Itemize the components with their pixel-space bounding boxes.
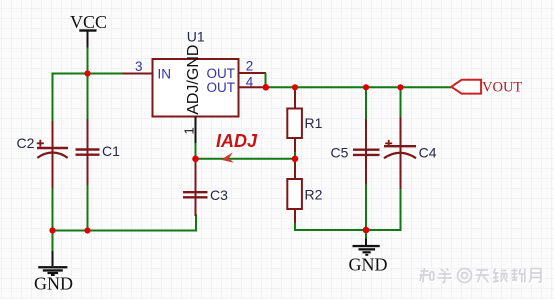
junction node R1/R2 (292, 156, 299, 163)
wire C2 bottom to ground rail (52, 187, 54, 231)
capacitor C3 (183, 160, 208, 216)
svg-text:ADJ/GND: ADJ/GND (185, 45, 202, 115)
wire C1 branch top (87, 74, 89, 121)
svg-text:VOUT: VOUT (482, 80, 522, 96)
svg-text:IN: IN (158, 67, 172, 82)
junction node ADJ/C3 (192, 156, 199, 163)
junction node R1 top (292, 84, 298, 90)
wire top-left horizontal (53, 73, 124, 75)
wire C1 bottom to ground rail (87, 184, 89, 231)
wire pin2 corner down (265, 73, 267, 87)
svg-text:IADJ: IADJ (216, 131, 258, 151)
resistor R1 (287, 87, 302, 159)
svg-text:R2: R2 (305, 187, 323, 203)
junction node gnd rail C1 (84, 227, 90, 233)
annotation arrow IADJ (221, 152, 234, 163)
junction node C5 top (363, 84, 369, 90)
svg-text:C5: C5 (331, 144, 349, 160)
junction node VCC/C1 (84, 70, 90, 76)
resistor R2 (287, 159, 302, 231)
ground GND-left (34, 251, 73, 294)
port VOUT (451, 80, 522, 96)
ground GND-right (349, 229, 388, 275)
svg-text:R1: R1 (305, 115, 323, 131)
junction node gnd rail C2 (49, 227, 55, 233)
svg-text:C2: C2 (17, 135, 35, 151)
power port VCC (70, 12, 107, 48)
wire bottom-left ground rail (53, 214, 197, 231)
junction node gnd rail right (363, 227, 370, 234)
wire left drop to C2 (52, 73, 54, 124)
svg-text:4: 4 (246, 74, 254, 89)
capacitor C5 (353, 87, 380, 232)
junction node C4 top (397, 84, 403, 90)
pin 2 stub (239, 72, 267, 74)
pin 3 stub (123, 73, 153, 75)
svg-text:VCC: VCC (70, 12, 107, 32)
svg-text:1: 1 (182, 127, 197, 134)
svg-text:3: 3 (135, 59, 143, 74)
pin 4 stub (239, 86, 267, 88)
svg-text:U1: U1 (187, 28, 205, 44)
svg-text:C1: C1 (102, 143, 120, 159)
capacitor C1 (76, 119, 100, 185)
svg-text:C4: C4 (419, 144, 437, 160)
svg-text:GND: GND (34, 274, 73, 294)
wire VCC stem to node (87, 46, 89, 74)
svg-text:C3: C3 (210, 187, 228, 203)
svg-text:GND: GND (349, 255, 388, 275)
wire pin1 to adj node (195, 143, 197, 159)
svg-text:2: 2 (246, 59, 254, 74)
wire adj horizontal (196, 158, 296, 160)
capacitor C2 (37, 121, 68, 188)
wire GND-left stem (52, 231, 54, 254)
watermark (421, 269, 543, 284)
wire bottom-right ground rail (295, 189, 401, 230)
svg-text:OUT: OUT (207, 80, 236, 95)
junction node pin2/pin4 (263, 84, 270, 91)
capacitor C4 (384, 87, 416, 190)
wire output rail (266, 86, 452, 88)
pin 1 stub (black) (195, 117, 197, 146)
voltage regulator U1 body (153, 59, 239, 117)
